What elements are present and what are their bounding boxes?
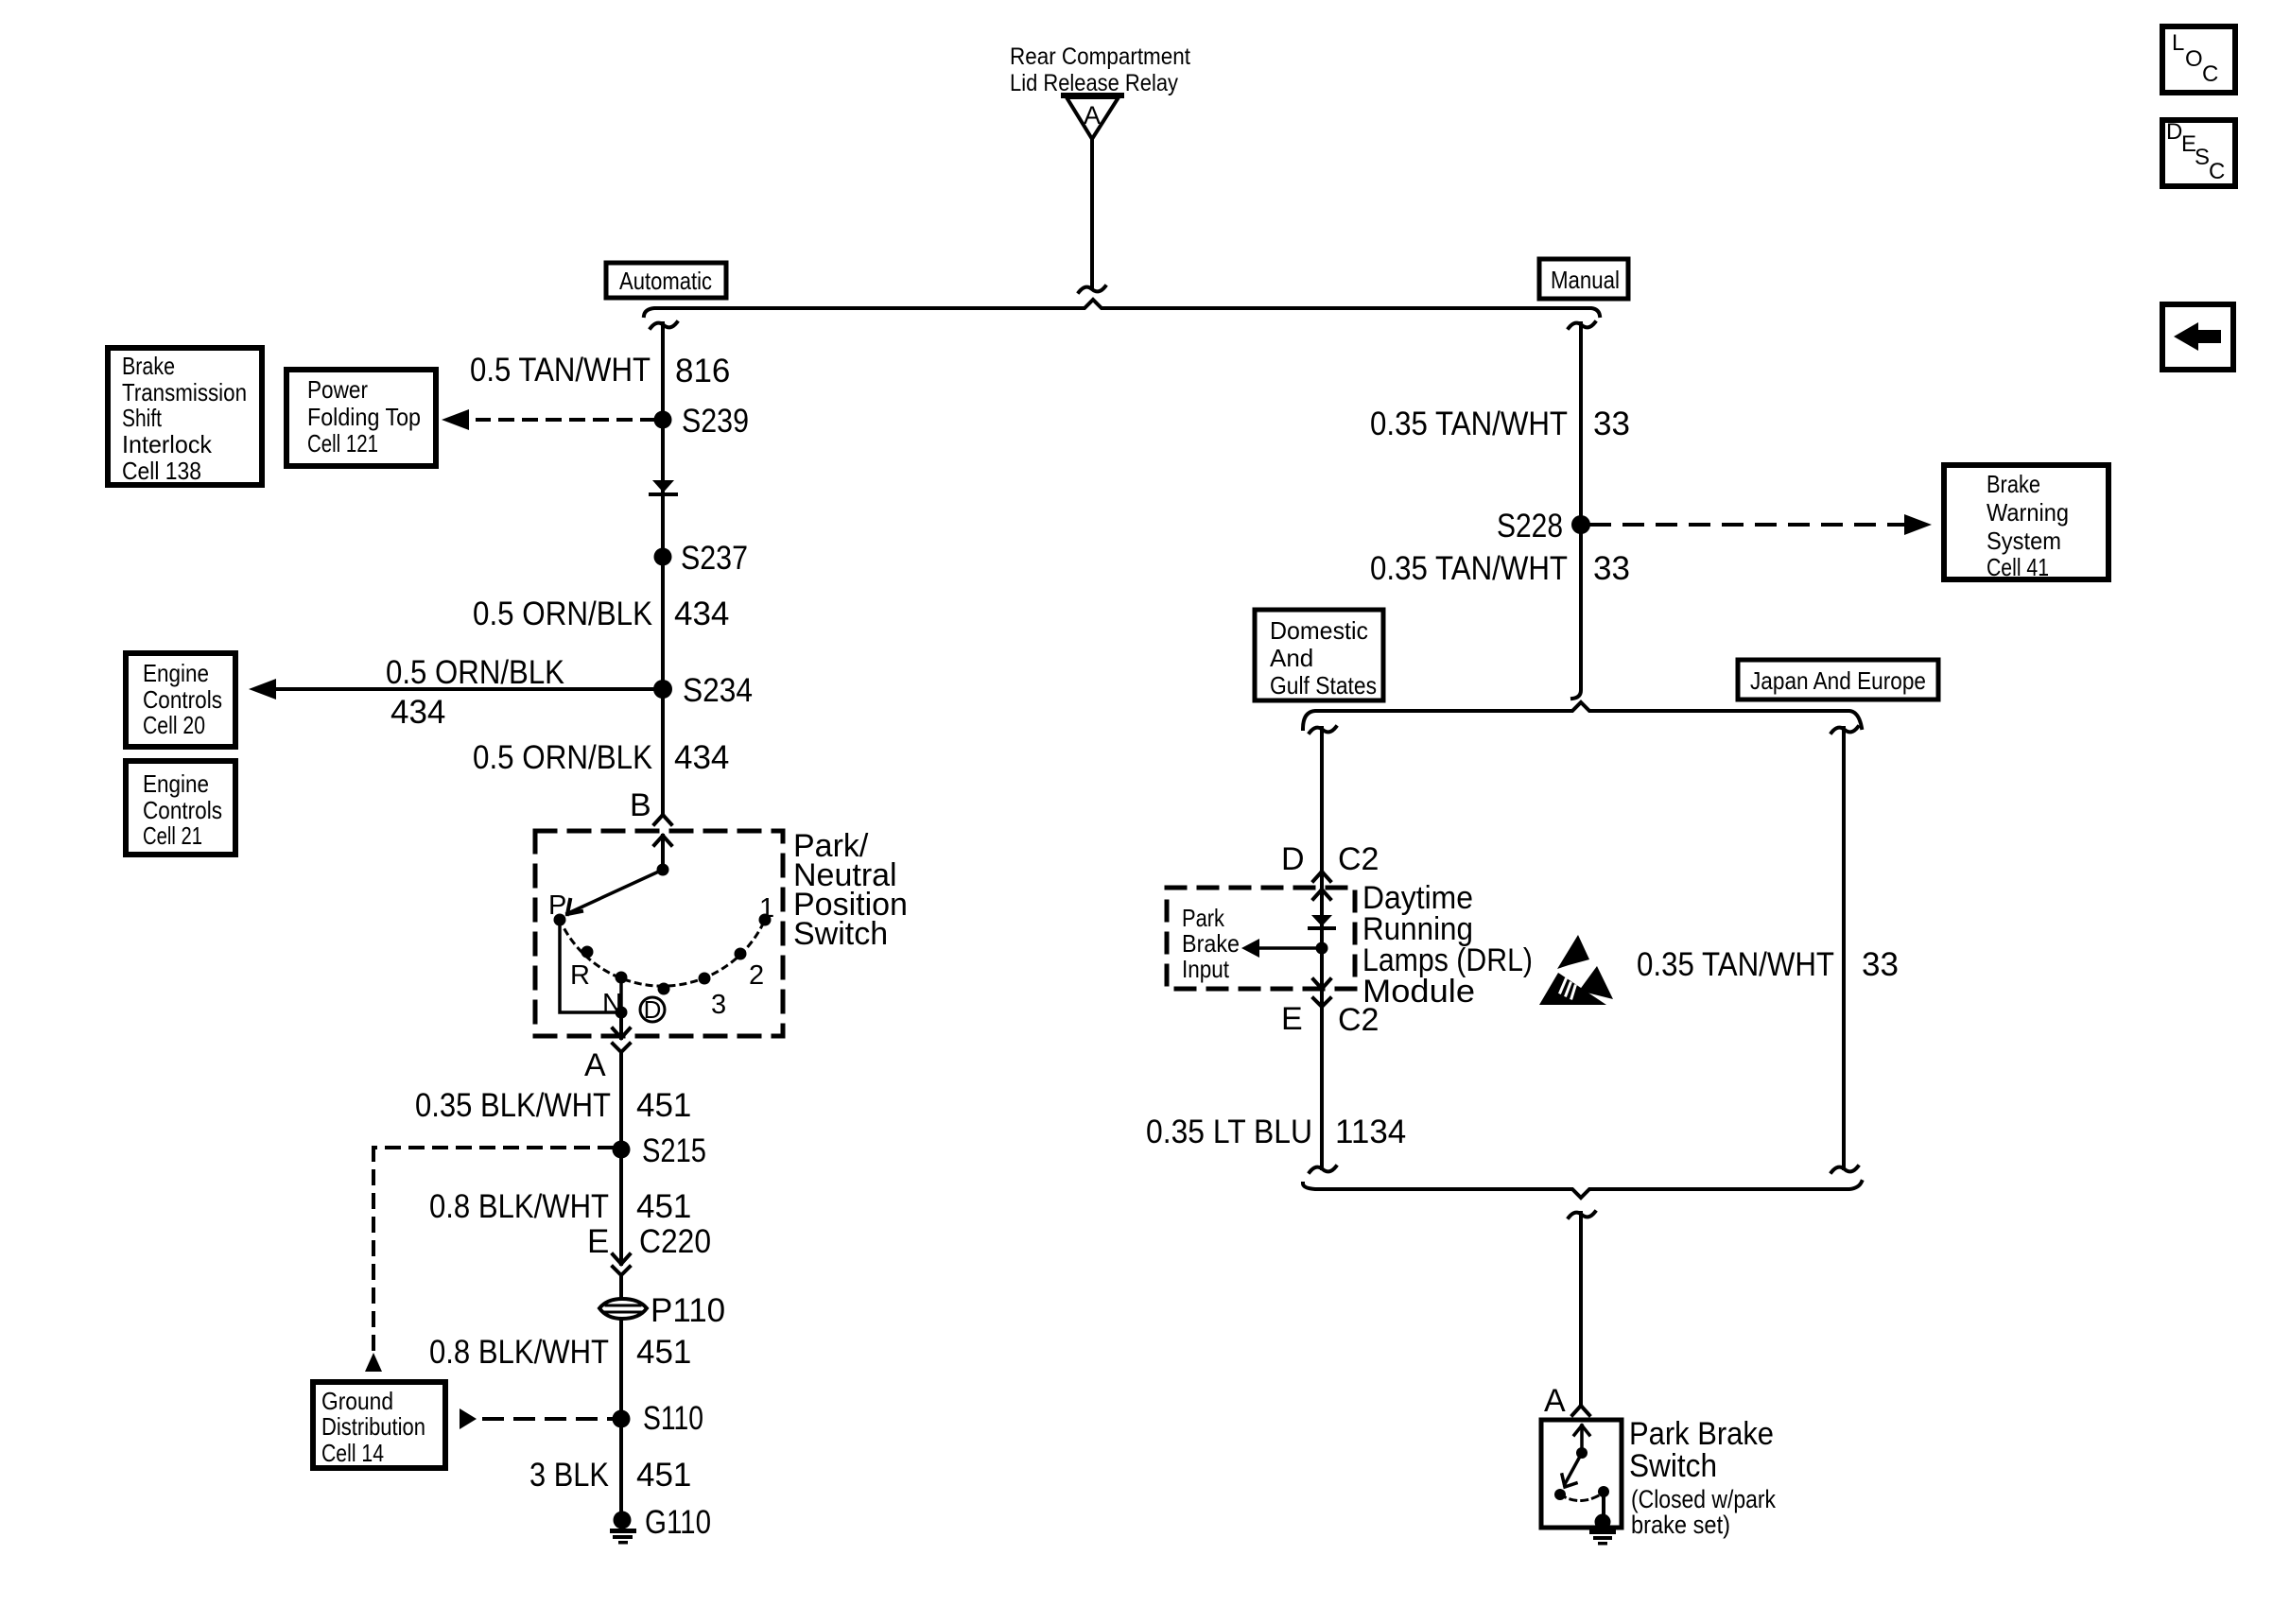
- wire: Japan And Europe branch vertical (33): [1842, 728, 1846, 1168]
- connector tilde at top of Domestic branch: [1310, 727, 1336, 733]
- svg-text:Brake: Brake: [1182, 929, 1240, 958]
- label: Park/Neutral Position Switch: [793, 828, 908, 952]
- svg-text:G110: G110: [645, 1504, 711, 1541]
- label: 0.35 LT BLU 1134: [1146, 1114, 1406, 1150]
- svg-text:brake set): brake set): [1631, 1511, 1730, 1539]
- label: 0.8 BLK/WHT 451 (above C220): [429, 1188, 691, 1225]
- wire: C220 to P110: [619, 1284, 623, 1299]
- contact N: [602, 972, 628, 1020]
- svg-text:S239: S239: [682, 403, 749, 440]
- relay triangle A (Rear Compartment Lid Release Relay pin A): [1064, 95, 1121, 139]
- svg-text:0.8 BLK/WHT: 0.8 BLK/WHT: [429, 1334, 609, 1371]
- svg-text:0.35 TAN/WHT: 0.35 TAN/WHT: [1637, 946, 1834, 983]
- module input arrow at pin D: [1313, 890, 1330, 899]
- svg-text:Automatic: Automatic: [619, 267, 712, 295]
- svg-text:Shift: Shift: [122, 404, 163, 432]
- svg-text:A: A: [1084, 101, 1101, 130]
- svg-text:S110: S110: [643, 1400, 703, 1437]
- svg-text:(Closed w/park: (Closed w/park: [1631, 1485, 1776, 1513]
- switch pivot contact: [1576, 1447, 1588, 1459]
- label box: Domestic And Gulf States: [1255, 610, 1383, 700]
- brace: manual splits to Domestic / Japan branches: [1303, 702, 1862, 729]
- svg-text:3: 3: [711, 990, 726, 1020]
- svg-text:451: 451: [636, 1457, 691, 1494]
- label: Daytime Running Lamps (DRL) Module: [1362, 880, 1533, 1010]
- box: Brake Transmission Shift Interlock Cell 138: [108, 348, 262, 485]
- box: Engine Controls Cell 21: [126, 761, 235, 855]
- svg-text:Cell 41: Cell 41: [1987, 553, 2049, 581]
- switch input arrow (pin B into switch): [654, 836, 671, 845]
- pin label D / connector C2 (DRL module): [1281, 841, 1379, 877]
- label: 0.35 TAN/WHT 33 (Japan branch): [1637, 946, 1899, 983]
- wire: main horizontal bus: [644, 300, 1600, 316]
- ground G110: [610, 1504, 711, 1545]
- contact 3: [699, 973, 727, 1021]
- svg-text:Input: Input: [1182, 955, 1230, 983]
- svg-text:Engine: Engine: [143, 769, 209, 798]
- svg-text:Cell 138: Cell 138: [122, 457, 201, 485]
- svg-text:P: P: [548, 890, 566, 921]
- dashed wire: S215 to Ground Distribution (horizontal then vertical): [373, 1148, 612, 1350]
- svg-text:1: 1: [759, 893, 774, 924]
- svg-text:451: 451: [636, 1087, 691, 1124]
- label: Park Brake Input: [1182, 904, 1240, 983]
- connector tilde at relay stem bottom: [1079, 286, 1105, 292]
- svg-text:Cell 121: Cell 121: [307, 429, 378, 458]
- switch stationary contact (left): [1554, 1489, 1566, 1500]
- label box: Automatic: [606, 263, 726, 298]
- svg-text:Gulf States: Gulf States: [1270, 671, 1377, 700]
- svg-text:3 BLK: 3 BLK: [529, 1457, 609, 1494]
- svg-text:Module: Module: [1362, 974, 1475, 1010]
- label box: Manual: [1539, 259, 1628, 299]
- corner box: DESC: [2162, 119, 2235, 186]
- wire: manual branch vertical (33): [1572, 323, 1581, 699]
- svg-text:D: D: [644, 995, 662, 1024]
- pin label E / connector C2 (DRL module bottom): [1281, 1001, 1379, 1038]
- dashed wire: S239 to Power Folding Top: [477, 418, 654, 422]
- contact P: [548, 890, 566, 926]
- component: Daytime Running Lamps (DRL) Module (dashed box): [1167, 888, 1355, 989]
- svg-text:0.5 ORN/BLK: 0.5 ORN/BLK: [473, 739, 652, 776]
- switch pivot junction: [657, 864, 669, 876]
- splice S228: [1497, 508, 1590, 544]
- label: Park Brake Switch: [1629, 1416, 1774, 1484]
- label box: Japan And Europe: [1738, 660, 1938, 700]
- svg-text:And: And: [1270, 644, 1313, 672]
- wire: output junction to pin A with arrow: [613, 1012, 630, 1038]
- box: Ground Distribution Cell 14: [313, 1382, 445, 1468]
- wire: pin B to pivot: [661, 836, 665, 870]
- pin label E / connector C220: [587, 1223, 711, 1260]
- connector tilde at top of automatic branch: [651, 322, 677, 328]
- connector tilde below rejoin brace: [1569, 1212, 1595, 1218]
- diode inside DRL module: [1310, 915, 1334, 928]
- svg-text:C: C: [2202, 61, 2218, 87]
- svg-text:Controls: Controls: [143, 685, 222, 714]
- svg-text:Distribution: Distribution: [321, 1412, 425, 1441]
- wire: N contact to output junction: [619, 977, 623, 1012]
- connector tilde at bottom of Japan branch: [1831, 1166, 1858, 1172]
- svg-text:0.5 TAN/WHT: 0.5 TAN/WHT: [470, 352, 651, 389]
- svg-text:451: 451: [636, 1188, 691, 1225]
- grommet P110: [599, 1292, 725, 1329]
- wire: P110 down to G110: [619, 1319, 623, 1515]
- corner box: LOC: [2162, 26, 2235, 93]
- contact D (circled): [640, 983, 670, 1025]
- wire: junction to Park Brake Input arrow: [1258, 946, 1322, 950]
- wire: P contact to output corner: [560, 920, 621, 1012]
- splice S110: [613, 1400, 704, 1437]
- relay label: Rear Compartment Lid Release Relay: [1010, 43, 1190, 96]
- svg-text:Ground: Ground: [321, 1387, 393, 1415]
- box: Engine Controls Cell 20: [126, 653, 235, 747]
- svg-text:33: 33: [1593, 406, 1630, 442]
- switch output junction: [616, 1007, 628, 1019]
- svg-text:C: C: [2209, 159, 2225, 184]
- dashed wire: Ground Distribution to S110: [484, 1417, 611, 1421]
- wire: S234 to Engine Controls: [275, 687, 654, 691]
- wire: pin A down to S215 and beyond: [619, 1061, 623, 1264]
- switch arm from pivot toward P: [567, 870, 663, 914]
- arrowhead Park Brake Input: [1241, 939, 1259, 958]
- svg-text:Switch: Switch: [1629, 1448, 1717, 1484]
- contact R: [570, 946, 594, 992]
- corner box: back arrow: [2162, 304, 2233, 370]
- arrowhead (right) from Ground Distribution toward S110: [460, 1408, 477, 1429]
- arrowhead (up) above Ground Distribution box: [365, 1353, 382, 1372]
- dashed arc to right contact: [1560, 1493, 1604, 1501]
- component: Park Brake Switch (box): [1541, 1420, 1622, 1528]
- svg-text:P110: P110: [651, 1292, 725, 1329]
- box: Power Folding Top Cell 121: [286, 370, 436, 466]
- contact 1: [759, 893, 775, 926]
- connector chevron at Park Brake Switch pin A: [1572, 1406, 1589, 1415]
- svg-text:S237: S237: [681, 540, 748, 577]
- svg-text:Cell 14: Cell 14: [321, 1439, 384, 1467]
- splice S215: [613, 1132, 707, 1169]
- connector C220 symbol (male arrow / female Y): [613, 1254, 630, 1284]
- wire: rejoined wire down to Park Brake Switch: [1579, 1213, 1583, 1406]
- label: 0.8 BLK/WHT 451 (below P110): [429, 1334, 691, 1371]
- wire: right contact to case ground: [1602, 1492, 1605, 1520]
- svg-text:Brake: Brake: [122, 352, 175, 380]
- label: 0.35 TAN/WHT 33 (above S228): [1370, 406, 1630, 442]
- svg-text:0.8 BLK/WHT: 0.8 BLK/WHT: [429, 1188, 609, 1225]
- contact 2: [735, 948, 765, 992]
- arrowhead to Engine Controls: [249, 679, 276, 700]
- ESD sensitivity symbol: [1539, 935, 1613, 1005]
- box: Brake Warning System Cell 41: [1944, 465, 2108, 581]
- connector tilde at top of manual branch: [1569, 322, 1595, 328]
- svg-text:451: 451: [636, 1334, 691, 1371]
- svg-text:33: 33: [1862, 946, 1899, 983]
- svg-text:B: B: [630, 787, 651, 823]
- diode on automatic branch: [651, 480, 676, 494]
- svg-text:0.35 BLK/WHT: 0.35 BLK/WHT: [415, 1087, 611, 1124]
- connector chevron at pin E: [1313, 998, 1330, 1016]
- svg-text:C220: C220: [639, 1223, 711, 1260]
- connector tilde at top of Japan branch: [1831, 727, 1858, 733]
- wire: relay stem down to bus: [1090, 139, 1094, 286]
- connector chevron at pin D: [1313, 872, 1330, 881]
- connector tilde at bottom of Domestic branch: [1310, 1166, 1336, 1172]
- svg-text:Warning: Warning: [1987, 498, 2069, 527]
- svg-text:Cell 21: Cell 21: [143, 821, 202, 850]
- svg-text:Transmission: Transmission: [122, 378, 247, 406]
- svg-text:434: 434: [674, 596, 729, 632]
- ground at Park Brake Switch case: [1589, 1514, 1616, 1546]
- arrowhead to Power Folding Top: [442, 409, 469, 430]
- svg-text:E: E: [1281, 1001, 1303, 1037]
- svg-text:Controls: Controls: [143, 796, 222, 824]
- svg-text:33: 33: [1593, 550, 1630, 587]
- svg-text:Switch: Switch: [793, 916, 888, 952]
- svg-text:S234: S234: [683, 672, 753, 709]
- svg-text:434: 434: [674, 739, 729, 776]
- splice S239: [654, 403, 750, 440]
- svg-text:Brake: Brake: [1987, 470, 2040, 498]
- label: 0.5 ORN/BLK 434 (above S234): [473, 596, 729, 632]
- svg-text:D: D: [1281, 841, 1305, 877]
- svg-text:Manual: Manual: [1551, 266, 1620, 294]
- svg-text:0.35 LT BLU: 0.35 LT BLU: [1146, 1114, 1312, 1150]
- splice S234: [653, 672, 753, 709]
- svg-text:Park: Park: [1182, 904, 1225, 932]
- svg-text:A: A: [584, 1047, 606, 1083]
- svg-text:1134: 1134: [1335, 1114, 1406, 1150]
- wire: Domestic And Gulf States branch vertical: [1320, 728, 1324, 1168]
- svg-text:Park Brake: Park Brake: [1629, 1416, 1774, 1452]
- svg-text:R: R: [570, 960, 590, 991]
- svg-text:S215: S215: [642, 1132, 706, 1169]
- module junction to Park Brake Input: [1316, 942, 1328, 955]
- arrowhead to Brake Warning System: [1904, 514, 1932, 535]
- svg-text:Engine: Engine: [143, 659, 209, 687]
- svg-text:S: S: [2195, 145, 2210, 170]
- svg-text:434: 434: [390, 694, 445, 731]
- svg-text:System: System: [1987, 527, 2061, 555]
- svg-text:0.5 ORN/BLK: 0.5 ORN/BLK: [473, 596, 652, 632]
- connector chevron at pin A (below switch): [613, 1044, 630, 1061]
- svg-text:Rear Compartment: Rear Compartment: [1010, 43, 1190, 70]
- label: 0.5 ORN/BLK 434 (on wire to Engine Controls): [386, 654, 564, 731]
- wire: automatic branch vertical (816/434): [661, 323, 665, 815]
- svg-text:D: D: [2166, 119, 2182, 145]
- svg-text:Interlock: Interlock: [122, 430, 213, 458]
- svg-text:Domestic: Domestic: [1270, 616, 1368, 645]
- switch right contact: [1598, 1486, 1609, 1497]
- svg-text:0.35 TAN/WHT: 0.35 TAN/WHT: [1370, 406, 1568, 442]
- svg-text:C2: C2: [1338, 841, 1379, 877]
- svg-text:E: E: [587, 1223, 609, 1260]
- dashed wire: S228 to Brake Warning System: [1591, 523, 1904, 527]
- svg-text:2: 2: [749, 960, 764, 991]
- label: 0.35 TAN/WHT 33 (below S228): [1370, 550, 1630, 587]
- label: 3 BLK 451: [529, 1457, 691, 1494]
- svg-text:Power: Power: [307, 375, 368, 404]
- component: Park/Neutral Position Switch (dashed box): [535, 831, 783, 1036]
- svg-text:S228: S228: [1497, 508, 1563, 544]
- wire: module internal vertical: [1320, 890, 1324, 989]
- label: 0.35 BLK/WHT 451: [415, 1087, 691, 1124]
- dashed arc through switch contacts: [560, 920, 765, 986]
- brace: branches rejoin to park brake switch wire: [1303, 1182, 1862, 1198]
- svg-text:Folding Top: Folding Top: [307, 403, 421, 431]
- switch arm (open) with arrowhead: [1562, 1453, 1582, 1487]
- label: 0.5 TAN/WHT 816: [470, 352, 730, 389]
- label: (Closed w/park brake set): [1631, 1485, 1776, 1539]
- svg-text:A: A: [1544, 1383, 1566, 1419]
- svg-text:0.35 TAN/WHT: 0.35 TAN/WHT: [1370, 550, 1568, 587]
- connector chevron at pin B: [654, 815, 671, 824]
- label: 0.5 ORN/BLK 434 (below S234): [473, 739, 729, 776]
- svg-text:O: O: [2185, 46, 2203, 72]
- svg-text:Japan And Europe: Japan And Europe: [1750, 666, 1926, 695]
- module output arrow at pin E: [1313, 979, 1330, 989]
- splice S237: [654, 540, 749, 577]
- svg-text:816: 816: [675, 353, 730, 389]
- svg-text:Lid Release Relay: Lid Release Relay: [1010, 70, 1178, 96]
- svg-text:Cell 20: Cell 20: [143, 711, 205, 739]
- svg-text:L: L: [2172, 30, 2184, 56]
- switch internal input arrow: [1574, 1425, 1589, 1453]
- svg-text:0.5 ORN/BLK: 0.5 ORN/BLK: [386, 654, 564, 691]
